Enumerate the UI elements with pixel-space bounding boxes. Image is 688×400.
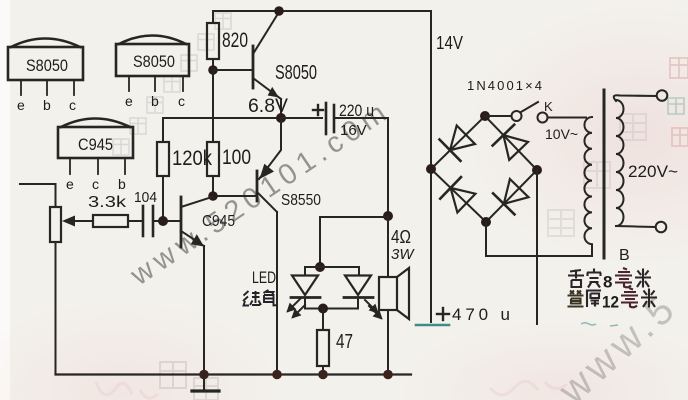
- svg-text:C945: C945: [202, 213, 235, 230]
- svg-text:820: 820: [222, 29, 248, 52]
- node bridge top: [480, 111, 490, 121]
- svg-text:b: b: [151, 93, 159, 109]
- terminal 220V bottom: [656, 222, 667, 233]
- svg-text:16V: 16V: [340, 122, 367, 139]
- wire S8050 base: [213, 69, 253, 71]
- ground: [192, 375, 219, 392]
- label green CJK (lv): [243, 291, 261, 306]
- speaker BL 4ohm 3W: [379, 216, 409, 375]
- teal mark: [581, 323, 618, 326]
- resistor R4 47: [317, 309, 329, 375]
- node rail C945 emitter: [199, 370, 209, 380]
- svg-text:C945: C945: [78, 135, 113, 154]
- wire S8550 base: [213, 195, 257, 197]
- node base S8550: [208, 191, 218, 201]
- node LED top: [315, 262, 325, 272]
- wire top rail 14V: [213, 11, 431, 322]
- svg-text:220 u: 220 u: [339, 101, 374, 120]
- svg-text:c: c: [178, 93, 185, 109]
- wire bridge right down: [536, 170, 538, 324]
- svg-text:S8050: S8050: [133, 52, 175, 71]
- watermark CJK chars top-left: [113, 13, 231, 155]
- svg-text:b: b: [43, 97, 51, 113]
- svg-text:e: e: [17, 97, 25, 113]
- svg-text:4Ω: 4Ω: [391, 227, 411, 247]
- svg-text:104: 104: [134, 189, 157, 206]
- svg-text:e: e: [66, 176, 74, 192]
- node bridge right: [532, 165, 542, 175]
- svg-text:3W: 3W: [391, 246, 415, 263]
- label kuan (width): [587, 269, 601, 288]
- label hou (thick): [586, 291, 601, 308]
- label hao (milli) 2: [621, 288, 638, 307]
- node 820/base junction: [208, 65, 218, 75]
- LED D2 green: [344, 276, 381, 319]
- LED D1 green: [288, 276, 320, 318]
- watermark teal char right edge: [668, 98, 684, 114]
- svg-text:B: B: [619, 247, 630, 264]
- node rail S8550 collector: [272, 370, 282, 380]
- transistor Q3 S8550: [257, 118, 281, 375]
- resistor 3.3k: [93, 215, 128, 227]
- resistor 100: [207, 142, 219, 197]
- node speaker/LED feed: [383, 211, 393, 221]
- wire bridge bottom to secondary: [486, 222, 592, 256]
- transistor package C945: [58, 119, 133, 175]
- node rail speaker: [383, 370, 393, 380]
- diode D6 bottom-right: [493, 179, 528, 214]
- wire base feed to 100: [212, 70, 214, 142]
- wire ground rail: [56, 373, 412, 375]
- watermark pink strokes bottom: [96, 381, 567, 398]
- diode D3 top-left: [440, 126, 476, 161]
- wire emitter rail 6.8V: [163, 117, 281, 119]
- svg-text:S8050: S8050: [275, 62, 317, 84]
- svg-text:220V~: 220V~: [628, 162, 678, 181]
- wire LED branch: [320, 217, 388, 267]
- transistor package S8050 (1): [8, 39, 83, 96]
- node collector on top rail: [274, 6, 284, 16]
- diode D4 top-right: [493, 125, 528, 160]
- svg-text:e: e: [125, 93, 133, 109]
- svg-text:c: c: [69, 97, 76, 113]
- node bridge bottom: [481, 217, 491, 227]
- label mi (meter): [635, 269, 651, 288]
- capacitor 470u plus lead: [416, 308, 449, 325]
- label green CJK (se): [264, 290, 279, 306]
- svg-text:b: b: [118, 176, 126, 192]
- watermark CJK chars bottom-left: [160, 362, 218, 400]
- label she (tongue): [568, 270, 584, 288]
- svg-text:K: K: [544, 99, 553, 114]
- svg-text:LED: LED: [252, 268, 276, 287]
- svg-text:c: c: [92, 176, 99, 192]
- resistor 120k: [157, 118, 169, 221]
- watermark CJK diagonal right (through transformer): [548, 114, 646, 236]
- wire cap to speaker node: [387, 118, 389, 216]
- node bridge left: [426, 164, 436, 174]
- svg-text:470 u: 470 u: [452, 305, 510, 324]
- node 6.8V: [276, 113, 286, 123]
- svg-text:6.8V: 6.8V: [248, 96, 288, 117]
- transistor package S8050 (2): [116, 36, 189, 92]
- label hao (milli): [615, 268, 632, 287]
- svg-text:10V~: 10V~: [545, 126, 578, 142]
- svg-text:12: 12: [602, 293, 619, 312]
- terminal 220V top: [657, 90, 668, 101]
- capacitor 104: [128, 206, 181, 236]
- diode D5 bottom-left: [440, 177, 475, 212]
- transformer primary winding 220V: [614, 90, 668, 232]
- svg-text:S8050: S8050: [26, 56, 68, 75]
- svg-text:47: 47: [336, 331, 353, 353]
- svg-text:100: 100: [222, 146, 251, 169]
- wire LED top bus: [305, 267, 359, 275]
- transistor Q1 S8050: [253, 12, 281, 118]
- svg-text:14V: 14V: [436, 33, 463, 53]
- node 120k/base C945: [158, 216, 168, 226]
- transformer B secondary winding 10V: [584, 117, 592, 256]
- svg-text:8: 8: [603, 273, 612, 292]
- transformer core: [603, 90, 606, 258]
- svg-text:120k: 120k: [172, 147, 212, 170]
- switch K: [485, 102, 586, 123]
- capacitor C2 220u: [281, 103, 388, 134]
- transistor Q2 C945: [181, 197, 212, 375]
- label mi (meter) 2: [641, 289, 657, 308]
- svg-text:S8550: S8550: [281, 192, 321, 209]
- wire LED bottom bus: [305, 308, 358, 310]
- bridge rectifier 1N4001 x4: [426, 111, 542, 227]
- label die (stack): [568, 291, 584, 307]
- watermark CJK pink right edge: [670, 58, 688, 146]
- node LED bottom: [318, 304, 328, 314]
- potentiometer RP: [20, 184, 92, 375]
- resistor 820: [207, 11, 219, 70]
- node rail R47: [318, 370, 328, 380]
- svg-text:3.3k: 3.3k: [88, 194, 127, 211]
